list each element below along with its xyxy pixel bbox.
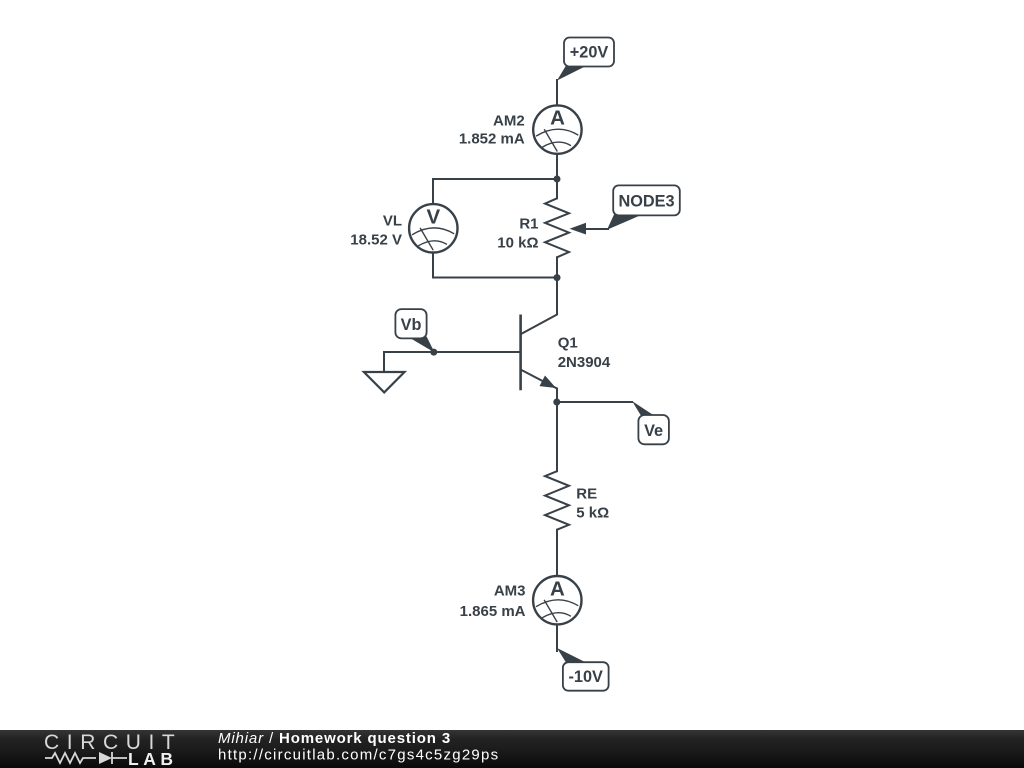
resistor R1 (potentiometer) — [545, 198, 569, 257]
wire voltmeter bottom horizontal to node B — [433, 277, 557, 279]
wire Q1 emitter to node C — [556, 389, 558, 403]
power flag -10V — [557, 648, 609, 691]
svg-text:A: A — [550, 107, 565, 130]
net flag Ve — [632, 401, 669, 444]
node: base junction — [430, 349, 437, 356]
label AM2 value — [459, 112, 525, 147]
svg-text:RE: RE — [576, 486, 597, 503]
svg-text:5 kΩ: 5 kΩ — [576, 505, 609, 522]
svg-text:R1: R1 — [519, 216, 538, 233]
svg-text:AM2: AM2 — [493, 112, 525, 129]
R1 wiper arrow — [570, 223, 587, 235]
resistor RE — [545, 471, 569, 530]
transistor Q1 — [521, 315, 557, 391]
svg-text:NODE3: NODE3 — [618, 193, 674, 211]
ground — [364, 372, 405, 392]
wire node B to Q1 collector — [521, 278, 557, 335]
svg-text:Vb: Vb — [401, 316, 422, 334]
svg-text:AM3: AM3 — [494, 583, 526, 600]
wire voltmeter bottom vertical — [432, 253, 434, 278]
wire AM2 bottom to node A — [556, 154, 558, 179]
node C junction — [553, 399, 560, 406]
node A junction — [554, 176, 561, 183]
svg-text:18.52 V: 18.52 V — [350, 231, 402, 248]
svg-text:10 kΩ: 10 kΩ — [497, 234, 538, 251]
net flag Vb — [395, 309, 434, 352]
svg-text:V: V — [427, 205, 441, 228]
svg-text:-10V: -10V — [568, 668, 603, 686]
ammeter AM3 — [533, 576, 581, 624]
net flag NODE3 — [607, 185, 680, 229]
label RE value — [576, 486, 609, 522]
wire node A to R1 top — [556, 179, 558, 198]
label Q1 value — [558, 335, 611, 371]
svg-text:1.852 mA: 1.852 mA — [459, 131, 525, 148]
wire node C to Ve flag — [557, 401, 632, 403]
svg-text:2N3904: 2N3904 — [558, 354, 611, 371]
svg-text:1.865 mA: 1.865 mA — [460, 603, 526, 620]
wire R1 bottom to node B — [556, 257, 558, 277]
wire voltmeter top vertical — [432, 179, 434, 204]
svg-text:http://circuitlab.com/c7gs4c5z: http://circuitlab.com/c7gs4c5zg29ps — [218, 747, 499, 764]
label R1 value — [497, 216, 538, 252]
ammeter AM2 — [533, 105, 581, 153]
wire AM3 bottom to -10V flag — [556, 624, 558, 651]
label VL value — [350, 213, 402, 249]
wire ground drop — [383, 352, 385, 372]
wire base: ground to Q1 base — [384, 351, 520, 353]
svg-text:A: A — [550, 577, 565, 600]
svg-text:+20V: +20V — [570, 44, 609, 62]
wire node C to RE top — [556, 402, 558, 471]
voltmeter VL — [409, 204, 457, 252]
svg-text:Mihiar / Homework question 3: Mihiar / Homework question 3 — [218, 730, 451, 747]
label AM3 value — [460, 583, 526, 620]
svg-text:Ve: Ve — [644, 422, 663, 440]
wire node A to voltmeter top horizontal — [433, 178, 557, 180]
svg-text:Q1: Q1 — [558, 335, 578, 352]
svg-text:LAB: LAB — [128, 749, 177, 768]
svg-text:VL: VL — [383, 213, 402, 230]
node B junction — [554, 274, 561, 281]
wire R1 wiper horizontal — [584, 228, 608, 230]
power flag +20V — [557, 38, 614, 81]
wire +20V flag to AM2 top — [556, 80, 558, 106]
CircuitLab logo — [44, 731, 182, 768]
wire RE bottom to AM3 top — [556, 530, 558, 577]
